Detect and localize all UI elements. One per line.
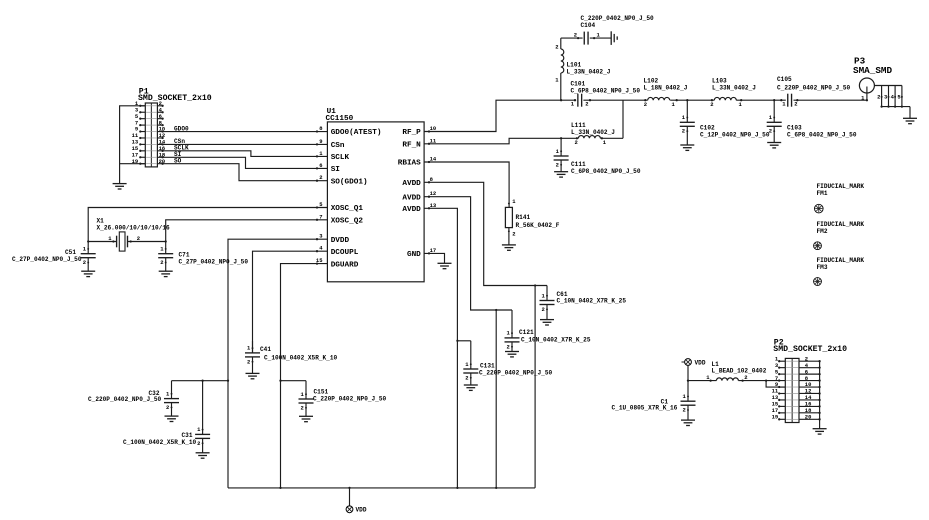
svg-text:C_220P_0402_NP0_J_50: C_220P_0402_NP0_J_50 — [479, 370, 552, 377]
svg-text:L111: L111 — [571, 122, 586, 129]
svg-text:2: 2 — [682, 407, 685, 414]
svg-text:6: 6 — [319, 162, 322, 169]
svg-text:2: 2 — [574, 139, 577, 146]
svg-text:C_6P8_0402_NP0_J_50: C_6P8_0402_NP0_J_50 — [571, 88, 641, 95]
svg-text:AVDD: AVDD — [402, 180, 421, 188]
svg-text:FM1: FM1 — [817, 190, 828, 197]
svg-text:2: 2 — [166, 404, 169, 411]
svg-text:2: 2 — [585, 101, 588, 108]
svg-text:C_27P_0402_NP0_J_50: C_27P_0402_NP0_J_50 — [179, 259, 249, 266]
svg-text:C_12P_0402_NP0_J_50: C_12P_0402_NP0_J_50 — [700, 131, 770, 138]
svg-text:2: 2 — [574, 32, 577, 39]
svg-text:C121: C121 — [519, 329, 534, 336]
svg-text:SI: SI — [331, 166, 341, 174]
svg-text:C_6P8_0402_NP0_J_50: C_6P8_0402_NP0_J_50 — [787, 131, 857, 138]
svg-text:L103: L103 — [712, 78, 727, 85]
svg-text:L_BEAD_102_0402: L_BEAD_102_0402 — [712, 367, 767, 374]
svg-text:C_100N_0402_X5R_K_10: C_100N_0402_X5R_K_10 — [264, 355, 337, 362]
svg-text:C104: C104 — [581, 22, 596, 29]
svg-text:2: 2 — [137, 235, 140, 242]
svg-text:L101: L101 — [567, 62, 582, 69]
svg-text:C_220P_0402_NP0_J_50: C_220P_0402_NP0_J_50 — [88, 396, 161, 403]
svg-text:2: 2 — [197, 440, 200, 447]
svg-text:GDO0(ATEST): GDO0(ATEST) — [331, 129, 382, 137]
svg-text:2: 2 — [556, 161, 559, 168]
svg-text:AVDD: AVDD — [402, 206, 421, 214]
svg-text:L_33N_0402_J: L_33N_0402_J — [567, 69, 611, 76]
svg-text:XOSC_Q1: XOSC_Q1 — [331, 205, 364, 213]
svg-text:XOSC_Q2: XOSC_Q2 — [331, 218, 364, 226]
svg-text:SCLK: SCLK — [331, 154, 350, 162]
svg-text:C103: C103 — [787, 124, 802, 131]
svg-text:2: 2 — [300, 404, 303, 411]
svg-text:C_220P_0402_NP0_J_50: C_220P_0402_NP0_J_50 — [313, 395, 386, 402]
svg-text:C_6P8_0402_NP0_J_50: C_6P8_0402_NP0_J_50 — [571, 168, 641, 175]
svg-text:C41: C41 — [260, 346, 271, 353]
svg-text:2: 2 — [247, 358, 250, 365]
svg-text:19: 19 — [132, 158, 139, 165]
svg-text:SMD_SOCKET_2x10: SMD_SOCKET_2x10 — [773, 345, 847, 354]
svg-text:2: 2 — [644, 101, 647, 108]
svg-text:C51: C51 — [65, 249, 76, 256]
svg-text:C_1U_0805_X7R_K_16: C_1U_0805_X7R_K_16 — [612, 405, 678, 412]
svg-text:2: 2 — [319, 174, 322, 181]
svg-text:2: 2 — [83, 259, 86, 266]
svg-text:2: 2 — [160, 259, 163, 266]
svg-text:X_26.000/10/10/10/16: X_26.000/10/10/10/16 — [97, 224, 170, 231]
svg-text:RBIAS: RBIAS — [398, 160, 421, 168]
svg-text:C151: C151 — [314, 388, 329, 395]
svg-text:GND: GND — [407, 251, 421, 259]
svg-text:C102: C102 — [700, 124, 715, 131]
svg-text:C101: C101 — [571, 81, 586, 88]
svg-text:9: 9 — [319, 138, 322, 145]
svg-text:FM3: FM3 — [817, 264, 828, 271]
svg-text:GDO0: GDO0 — [174, 125, 189, 132]
svg-text:C_10N_0402_X7R_K_25: C_10N_0402_X7R_K_25 — [521, 337, 591, 344]
svg-text:C_220P_0402_NP0_J_50: C_220P_0402_NP0_J_50 — [777, 85, 850, 92]
svg-text:RF_P: RF_P — [402, 129, 421, 137]
svg-text:L_33N_0402_J: L_33N_0402_J — [712, 85, 756, 92]
svg-text:R_56K_0402_F: R_56K_0402_F — [516, 222, 560, 229]
svg-text:C_100N_0402_X5R_K_10: C_100N_0402_X5R_K_10 — [123, 439, 196, 446]
svg-text:2: 2 — [465, 374, 468, 381]
svg-text:C_220P_0402_NP0_J_50: C_220P_0402_NP0_J_50 — [581, 15, 654, 22]
svg-text:X1: X1 — [97, 217, 105, 224]
svg-text:C_10N_0402_X7R_K_25: C_10N_0402_X7R_K_25 — [557, 298, 627, 305]
svg-text:2: 2 — [541, 306, 544, 313]
svg-text:R141: R141 — [516, 214, 531, 221]
svg-text:VDD: VDD — [356, 507, 367, 514]
svg-text:C71: C71 — [179, 252, 190, 259]
svg-text:SO(GDO1): SO(GDO1) — [331, 178, 368, 186]
svg-text:C105: C105 — [777, 76, 792, 83]
svg-text:C31: C31 — [182, 432, 193, 439]
svg-text:2: 2 — [555, 44, 558, 51]
svg-text:C111: C111 — [571, 161, 586, 168]
svg-text:DCOUPL: DCOUPL — [331, 249, 359, 257]
svg-text:L_33N_0402_J: L_33N_0402_J — [571, 129, 615, 136]
svg-text:2: 2 — [744, 374, 747, 381]
svg-text:C_27P_0402_NP0_J_50: C_27P_0402_NP0_J_50 — [12, 256, 82, 263]
svg-text:2: 2 — [769, 128, 772, 135]
svg-text:CSn: CSn — [331, 142, 345, 150]
svg-text:2: 2 — [506, 343, 509, 350]
svg-text:AVDD: AVDD — [402, 194, 421, 202]
svg-text:2: 2 — [794, 101, 797, 108]
svg-text:2: 2 — [512, 230, 515, 237]
svg-text:2: 2 — [877, 93, 880, 100]
svg-text:SMA_SMD: SMA_SMD — [853, 65, 892, 76]
svg-text:VDD: VDD — [695, 359, 706, 366]
svg-text:SO: SO — [174, 158, 182, 165]
svg-text:DGUARD: DGUARD — [331, 261, 359, 269]
svg-text:2: 2 — [710, 101, 713, 108]
svg-text:DVDD: DVDD — [331, 237, 350, 245]
svg-text:L_18N_0402_J: L_18N_0402_J — [644, 85, 688, 92]
svg-text:FM2: FM2 — [817, 228, 828, 235]
svg-text:SMD_SOCKET_2x10: SMD_SOCKET_2x10 — [138, 94, 212, 103]
svg-text:L102: L102 — [644, 78, 659, 85]
svg-text:2: 2 — [682, 128, 685, 135]
svg-text:RF_N: RF_N — [402, 142, 421, 150]
svg-text:19: 19 — [772, 414, 779, 421]
